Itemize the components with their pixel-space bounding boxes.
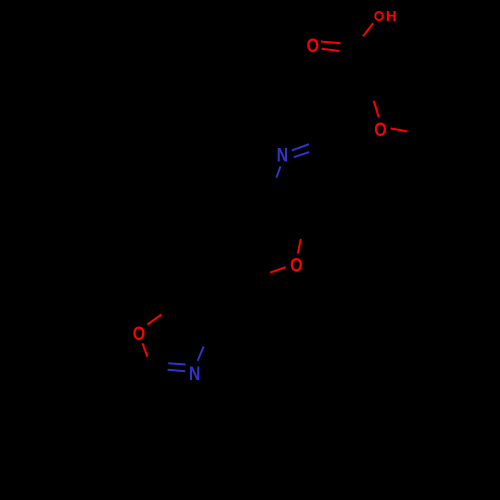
- wire oxazole O up-right bond (red half): [147, 315, 161, 325]
- svg-text:O: O: [133, 323, 145, 345]
- svg-text:H: H: [386, 8, 397, 25]
- wire ether O upper bond (red half): [374, 101, 379, 117]
- wire oxazole N up-right bond (blue half): [198, 347, 204, 361]
- wire N-C bond lower left (blue half): [276, 166, 280, 177]
- wire ether O right bond (red half): [391, 128, 408, 131]
- wire middle O left bond (red half): [270, 267, 286, 272]
- wire N=C double bond upper (blue half): [292, 144, 309, 150]
- wire oxazole O down bond (red half): [143, 343, 148, 356]
- svg-text:O: O: [374, 9, 385, 26]
- wire C=O double bond lower (red half): [322, 49, 340, 51]
- svg-text:O: O: [290, 254, 302, 276]
- wire C=O double bond upper (red half): [321, 42, 341, 44]
- wire middle O up bond (red half): [298, 239, 301, 253]
- wire N=C double bond lower (blue half): [294, 152, 309, 157]
- wire C-OH bond (red half): [363, 23, 373, 36]
- svg-text:N: N: [189, 363, 201, 385]
- svg-text:N: N: [277, 144, 289, 166]
- carboxylic acid OH label: [374, 8, 397, 25]
- svg-text:O: O: [307, 35, 319, 57]
- wire oxazole N=C double bond lower (blue half): [168, 370, 186, 371]
- wire oxazole N=C double bond upper (blue half): [168, 363, 185, 364]
- svg-text:O: O: [374, 118, 386, 140]
